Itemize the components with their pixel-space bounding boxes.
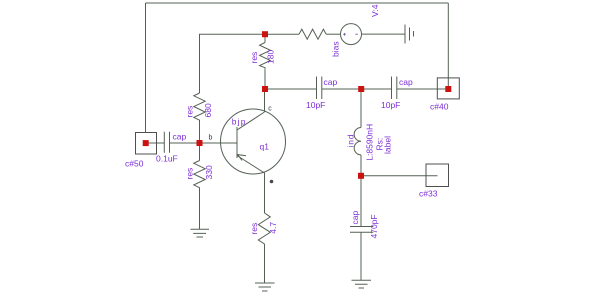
node V junction xyxy=(262,31,268,37)
port c#33 xyxy=(419,164,449,199)
svg-text:L:8590nH: L:8590nH xyxy=(364,124,374,161)
wire right vertical from top rail to port c#40 xyxy=(447,3,449,89)
svg-text:cap: cap xyxy=(350,211,360,225)
wire collector to node C xyxy=(264,89,266,112)
node M junction xyxy=(358,86,364,92)
svg-text:10pF: 10pF xyxy=(306,100,325,110)
svg-text:b: b xyxy=(209,135,213,142)
svg-text:res: res xyxy=(249,52,259,64)
wire emitter to res 4.7 xyxy=(264,173,266,213)
svg-text:cap: cap xyxy=(324,77,338,87)
inductor ind L:8590nH xyxy=(346,124,393,161)
resistor res 4.7 xyxy=(249,213,278,244)
svg-text:680: 680 xyxy=(203,103,213,117)
svg-text:q1: q1 xyxy=(260,142,270,152)
wire node M to capacitor 10pF (right) xyxy=(361,88,392,90)
ground right-facing at top right xyxy=(405,25,414,44)
wire node M to inductor xyxy=(360,89,362,128)
wire capacitor 0.1uF to node B xyxy=(170,142,200,144)
svg-text:label: label xyxy=(383,136,393,154)
port c#40 xyxy=(430,78,459,112)
node D junction xyxy=(358,173,364,179)
wire left vertical from top rail to port c#50 xyxy=(145,3,147,133)
svg-text:ind: ind xyxy=(346,134,356,148)
capacitor cap 10pF (left) xyxy=(306,77,337,110)
svg-text:330: 330 xyxy=(204,165,214,179)
wire res 680 bottom lead xyxy=(199,123,201,143)
svg-text:470pF: 470pF xyxy=(369,214,379,238)
wire res 4.7 to ground xyxy=(264,244,266,283)
wire res 180 to node C xyxy=(264,70,266,89)
resistor bias (horizontal) xyxy=(299,29,341,57)
port c#50 xyxy=(125,133,157,169)
svg-text:cap: cap xyxy=(173,132,187,142)
wire node D to port c#33 xyxy=(361,175,438,177)
svg-text:180: 180 xyxy=(266,50,276,64)
svg-text:V:4: V:4 xyxy=(370,4,380,17)
wire node V to resistor bias xyxy=(265,33,299,35)
wire capacitor 470pF to ground xyxy=(360,232,362,280)
node B junction xyxy=(197,140,203,146)
svg-text:c: c xyxy=(268,106,272,113)
svg-text:res: res xyxy=(249,223,259,235)
wire node C to capacitor 10pF (left) xyxy=(265,88,317,90)
wire node B to res 330 xyxy=(199,143,201,161)
svg-text:bjp: bjp xyxy=(232,117,247,127)
resistor res 680 xyxy=(185,93,214,123)
wire top rail xyxy=(146,2,449,4)
wire port c#50 to capacitor 0.1uF xyxy=(146,142,165,144)
wire res 680 top lead up and over to node V xyxy=(200,34,266,93)
ground under res 4.7 xyxy=(255,283,275,291)
wire capacitor 10pF (right) to port c#40 xyxy=(397,88,449,90)
voltage source V:4 xyxy=(341,4,381,44)
svg-text:cap: cap xyxy=(399,77,413,87)
pin label e xyxy=(270,180,274,184)
svg-text:4.7: 4.7 xyxy=(268,222,278,234)
svg-text:10pF: 10pF xyxy=(381,100,400,110)
wire capacitor 10pF (left) to node M xyxy=(322,88,361,90)
capacitor 0.1uF xyxy=(156,132,186,164)
node C junction xyxy=(262,86,268,92)
wire resistor bias to source V:4 xyxy=(326,33,340,35)
wire inductor to node D xyxy=(360,155,362,176)
wire node B to transistor base xyxy=(200,142,238,144)
capacitor cap 470pF xyxy=(350,211,379,239)
ground under res 330 xyxy=(191,229,210,237)
svg-text:bias: bias xyxy=(331,41,341,57)
wire res 330 to ground xyxy=(199,189,201,230)
svg-text:c#33: c#33 xyxy=(419,189,438,199)
svg-text:res: res xyxy=(185,168,195,180)
svg-text:c#50: c#50 xyxy=(125,159,144,169)
transistor q1 (bjp) xyxy=(221,109,286,174)
svg-text:0.1uF: 0.1uF xyxy=(156,154,178,164)
wire node V to res 180 xyxy=(264,34,266,42)
capacitor cap 10pF (right) xyxy=(381,77,413,110)
resistor res 330 xyxy=(185,161,215,189)
wire source V:4 to ground xyxy=(362,33,406,35)
ground under capacitor 470pF xyxy=(352,280,372,288)
resistor res 180 xyxy=(249,43,276,70)
svg-text:res: res xyxy=(185,106,195,118)
svg-text:c#40: c#40 xyxy=(430,102,449,112)
wire node D to capacitor 470pF xyxy=(360,176,362,227)
